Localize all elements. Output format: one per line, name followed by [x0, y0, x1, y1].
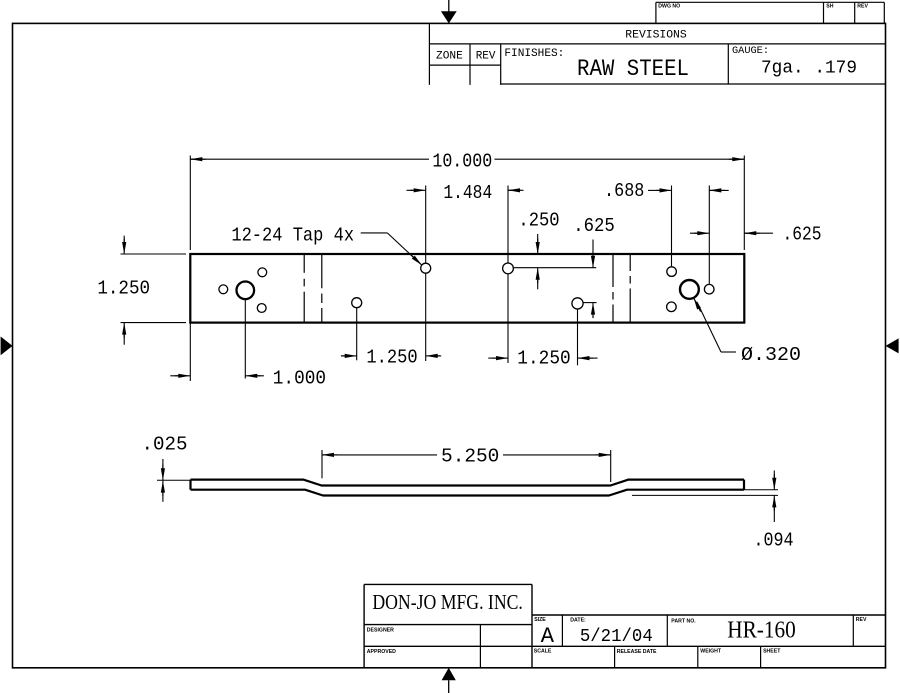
svg-text:WEIGHT: WEIGHT: [700, 649, 722, 655]
svg-text:REV: REV: [856, 617, 867, 623]
centering mark bottom: [442, 668, 456, 680]
svg-text:FINISHES:: FINISHES:: [504, 48, 564, 60]
svg-text:DATE:: DATE:: [570, 618, 586, 624]
hole right small south: [667, 302, 677, 312]
dimension 5.250: [321, 450, 323, 478]
svg-text:5/21/04: 5/21/04: [580, 627, 653, 647]
svg-text:ZONE: ZONE: [436, 50, 463, 62]
centering mark top: [448, 0, 450, 12]
top view plate outline: [190, 254, 744, 323]
svg-text:.625: .625: [783, 223, 822, 245]
svg-text:.025: .025: [142, 434, 188, 456]
svg-text:10.000: 10.000: [432, 151, 492, 173]
svg-text:.688: .688: [604, 180, 644, 202]
side view left end cap: [189, 480, 191, 490]
dimension 1.250 left-middle: [356, 308, 358, 360]
hole right small north: [667, 267, 677, 277]
bend line right B: [629, 255, 631, 272]
tap hole 3: [503, 263, 514, 274]
dimension 10.000: [189, 156, 191, 251]
svg-text:1.250: 1.250: [97, 278, 150, 300]
dimension .625 right: [690, 232, 698, 234]
svg-text:A: A: [541, 624, 555, 649]
dimension 1.484: [425, 186, 427, 263]
svg-text:1.250: 1.250: [517, 347, 570, 369]
svg-text:.094: .094: [754, 530, 794, 552]
svg-text:1.484: 1.484: [443, 182, 492, 204]
hole left small west: [219, 285, 228, 294]
svg-text:REVISIONS: REVISIONS: [625, 29, 687, 41]
dimension .025: [157, 479, 191, 481]
svg-text:RAW STEEL: RAW STEEL: [577, 56, 689, 82]
hole left small south: [257, 304, 266, 313]
title block: [363, 584, 365, 667]
svg-text:1.250: 1.250: [366, 347, 417, 369]
top strip box: [656, 1, 884, 3]
side view profile: [191, 480, 745, 486]
svg-text:1.000: 1.000: [273, 368, 326, 390]
hole right small east: [704, 284, 714, 294]
svg-text:REV: REV: [857, 3, 868, 9]
svg-text:.250: .250: [518, 210, 559, 232]
svg-text:APPROVED: APPROVED: [367, 649, 396, 655]
svg-text:SCALE: SCALE: [534, 649, 552, 655]
svg-text:REV: REV: [476, 50, 496, 62]
svg-text:.625: .625: [573, 215, 615, 237]
leader diameter .320: [697, 302, 721, 352]
svg-text:DESIGNER: DESIGNER: [367, 627, 394, 633]
svg-text:12-24 Tap 4x: 12-24 Tap 4x: [231, 225, 354, 247]
centering mark left: [1, 337, 13, 356]
svg-text:DWG NO: DWG NO: [658, 3, 680, 9]
svg-text:RELEASE DATE: RELEASE DATE: [617, 649, 657, 655]
svg-text:GAUGE:: GAUGE:: [732, 45, 769, 57]
hole left small north: [258, 268, 267, 277]
side view right end cap: [743, 480, 745, 490]
tap hole 2: [421, 263, 431, 273]
bend line left A: [303, 255, 305, 273]
hole left big: [237, 282, 255, 300]
hole right big: [680, 280, 699, 299]
dimension .688: [671, 186, 673, 267]
tap hole 1: [352, 298, 362, 308]
dimension .625 upper-left: [592, 240, 594, 257]
bend line right A: [612, 255, 614, 288]
dimension .094: [744, 489, 778, 491]
svg-text:SIZE: SIZE: [534, 617, 546, 623]
bend line left B: [321, 255, 323, 289]
dimension 1.000: [189, 323, 191, 381]
svg-text:Ø.320: Ø.320: [741, 344, 801, 366]
centering mark right: [886, 338, 899, 353]
svg-text:DON-JO MFG. INC.: DON-JO MFG. INC.: [372, 590, 523, 614]
svg-text:SHEET: SHEET: [763, 649, 781, 655]
dimension .250: [537, 234, 539, 243]
svg-text:5.250: 5.250: [441, 445, 499, 467]
revisions block: [428, 23, 430, 85]
dimension 1.250 right-middle: [577, 309, 579, 365]
tap hole 4: [572, 298, 583, 309]
dimension 1.250 vertical: [121, 253, 187, 255]
svg-text:7ga. .179: 7ga. .179: [761, 58, 857, 79]
svg-text:SH: SH: [826, 3, 833, 9]
svg-text:HR-160: HR-160: [727, 618, 796, 644]
svg-text:PART NO.: PART NO.: [671, 619, 696, 625]
